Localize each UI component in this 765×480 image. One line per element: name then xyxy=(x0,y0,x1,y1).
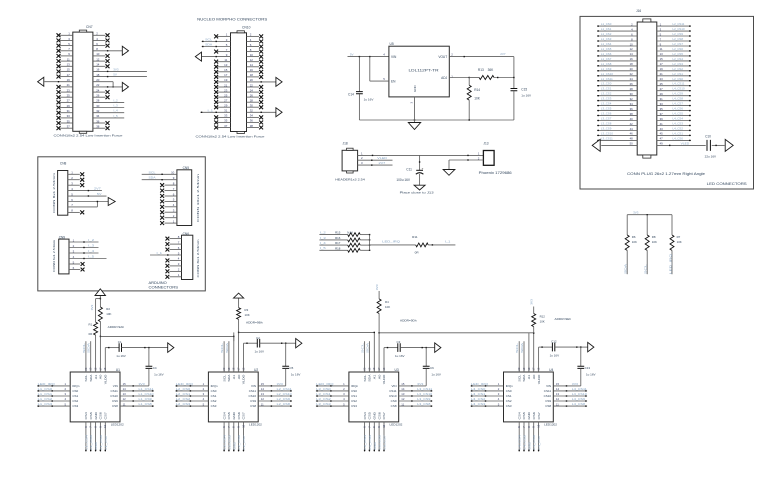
resistor R7 10K pullup to LED_IRQ xyxy=(668,215,681,275)
svg-text:SCL: SCL xyxy=(363,374,367,381)
svg-text:L1_CS3: L1_CS3 xyxy=(601,37,612,41)
regulator U5 LDL112PT-TR xyxy=(383,42,453,103)
svg-text:CONN18x2 2.54 Low Insertion Fo: CONN18x2 2.54 Low Insertion Force xyxy=(196,134,265,138)
CN10 pin 18 no-connect xyxy=(247,75,264,79)
CN6 pin 7 no-connect xyxy=(166,240,182,246)
CN10 pin 21 no-connect xyxy=(214,85,230,89)
svg-text:C10: C10 xyxy=(705,135,711,139)
svg-text:L2_CS5: L2_CS5 xyxy=(673,52,684,56)
U4 pin 4 net L4_CS2 xyxy=(471,397,504,402)
U1 pin 6 net L1_CS4 xyxy=(84,422,89,452)
svg-text:L1_CS7: L1_CS7 xyxy=(104,435,108,450)
CN7 pin 9 no-connect xyxy=(57,54,73,58)
CN8 pin 5 net 5V xyxy=(68,192,107,197)
svg-text:14: 14 xyxy=(630,52,634,56)
CN6 pin 6 no-connect xyxy=(166,246,182,252)
J16 pin 4 net L1_CS1 xyxy=(597,27,637,32)
resistor R2 10K on U1 A0 xyxy=(96,296,112,372)
svg-text:SDA: SDA xyxy=(368,375,372,382)
CN6 pin 4 no-connect xyxy=(166,257,182,263)
U4 pin 1 net LED_IRQ xyxy=(471,382,504,387)
svg-text:VOUT: VOUT xyxy=(438,55,447,59)
svg-text:SDA: SDA xyxy=(205,43,212,47)
svg-text:1u 16V: 1u 16V xyxy=(364,98,375,102)
svg-text:CS10: CS10 xyxy=(544,394,552,398)
svg-text:CS4: CS4 xyxy=(222,412,226,420)
U1 pin 14 net L1_CS11 xyxy=(120,387,154,392)
svg-text:Place close to J13: Place close to J13 xyxy=(400,191,434,195)
svg-text:C12: C12 xyxy=(551,340,557,344)
svg-text:15: 15 xyxy=(556,382,560,386)
J16 pin 37 net L4_CS5 xyxy=(657,112,691,117)
U1 A1 line with resistor R1 0R xyxy=(88,299,97,372)
svg-text:CS11: CS11 xyxy=(249,389,257,393)
CN10 pin 16 no-connect xyxy=(247,70,264,74)
svg-text:L1_CS11: L1_CS11 xyxy=(601,77,613,81)
svg-text:CS5: CS5 xyxy=(227,412,231,420)
svg-text:CS9: CS9 xyxy=(391,399,397,403)
U2 pin 1 net LED_IRQ xyxy=(175,382,208,387)
svg-text:A0: A0 xyxy=(377,374,381,379)
U3 VLDO stub xyxy=(383,348,385,372)
svg-text:L2_CS11: L2_CS11 xyxy=(673,22,685,26)
svg-text:25: 25 xyxy=(660,82,664,86)
svg-text:36: 36 xyxy=(630,107,634,111)
svg-text:CS5: CS5 xyxy=(522,412,526,420)
svg-text:L1_CS1: L1_CS1 xyxy=(601,27,612,31)
U1 SCL stub xyxy=(82,341,86,372)
svg-text:1u 16V: 1u 16V xyxy=(431,373,441,377)
svg-text:L2_CS2: L2_CS2 xyxy=(673,67,684,71)
CN7 pin 5 no-connect xyxy=(57,44,73,48)
svg-text:45: 45 xyxy=(660,132,664,136)
svg-text:CS6: CS6 xyxy=(532,412,536,420)
resistor R14 10K xyxy=(467,78,481,121)
CN5 pin 1 no-connect xyxy=(160,219,177,225)
svg-text:I_5: I_5 xyxy=(320,246,326,250)
CN10 pin 35 no-connect xyxy=(214,121,230,125)
svg-text:15: 15 xyxy=(261,382,265,386)
J16 pin 22 net L1_CS10 xyxy=(597,72,637,77)
svg-text:15: 15 xyxy=(123,382,127,386)
svg-text:L3_CS8: L3_CS8 xyxy=(417,402,431,406)
U2 pin 6 net L2_CS4 xyxy=(222,422,227,452)
svg-text:SCL: SCL xyxy=(644,264,648,274)
svg-text:L1_CS0: L1_CS0 xyxy=(38,387,53,391)
J16 pin 10 net L1_CS4 xyxy=(597,42,637,47)
J16 pin 45 net L4_CS1 xyxy=(657,131,691,136)
CN7 pin 6 no-connect xyxy=(93,44,110,48)
svg-text:CS3: CS3 xyxy=(506,404,512,408)
CN7 pin 7 no-connect xyxy=(57,49,73,53)
CN9 pin 1 net I_2 xyxy=(69,238,99,243)
U4 pin 9 net L4_CS6 xyxy=(532,422,537,452)
svg-text:3V3: 3V3 xyxy=(572,382,579,386)
capacitor C13 1u 16V xyxy=(577,347,595,386)
J16 pin 29 net L4_CS9 xyxy=(657,92,691,97)
U4 pin 10 net L4_CS7 xyxy=(537,422,542,452)
svg-text:1u 16V: 1u 16V xyxy=(154,373,164,377)
CN5 pin 6 no-connect xyxy=(160,192,177,198)
U3 pin 2 net L3_CS0 xyxy=(316,387,349,392)
CN7 pin 4 no-connect xyxy=(93,39,110,43)
U2 pin 5 net L2_CS3 xyxy=(175,402,208,407)
U1 top pin numbers xyxy=(84,367,107,370)
CN7 pin 11 no-connect xyxy=(57,59,73,63)
svg-text:I_5: I_5 xyxy=(113,114,118,118)
U4 pin 7 net L4_CS5 xyxy=(522,422,527,452)
svg-text:R2: R2 xyxy=(106,307,110,311)
wire to off-page arrow U1 xyxy=(148,343,174,352)
svg-text:U5: U5 xyxy=(390,42,394,46)
wire to off-page arrow U2 xyxy=(285,339,302,348)
U2 arrow up 3V3 xyxy=(234,293,244,298)
CN10 pin 9 off-page arrow xyxy=(195,52,230,61)
svg-text:13: 13 xyxy=(660,52,664,56)
U1 SDA stub xyxy=(87,341,91,372)
svg-text:I_2: I_2 xyxy=(88,238,94,242)
svg-text:I_1: I_1 xyxy=(156,251,162,255)
J16 pin 19 net L2_CS2 xyxy=(657,67,691,72)
svg-text:NUCLEO MORPHO CONNECTORS: NUCLEO MORPHO CONNECTORS xyxy=(197,18,268,22)
CN5 pin 7 no-connect xyxy=(160,187,177,193)
CN5 pin 9 net SDA xyxy=(142,176,177,181)
svg-text:CS7: CS7 xyxy=(537,412,541,420)
J16 pin 16 net L1_CS7 xyxy=(597,57,637,62)
svg-text:SDA: SDA xyxy=(227,375,231,382)
CN7 pin 2 no-connect xyxy=(93,33,110,37)
svg-text:L4_CS5: L4_CS5 xyxy=(673,112,684,116)
svg-text:L3_CS10: L3_CS10 xyxy=(417,392,432,396)
U3 pin 8 net GND xyxy=(372,422,377,452)
CN10 pin 10 no-connect xyxy=(247,55,264,59)
resistor R11 0R xyxy=(412,235,428,255)
U2 SDA stub xyxy=(225,341,229,372)
svg-text:SCL: SCL xyxy=(205,38,212,42)
CN10 pin 3 net SCL xyxy=(202,38,231,43)
svg-text:L2_CS8: L2_CS8 xyxy=(673,37,684,41)
U1 pin 1 net LED_IRQ xyxy=(37,382,70,387)
wire J13 pin2 to ground xyxy=(449,159,483,169)
CN5 pin 4 no-connect xyxy=(160,203,177,209)
J16 pin 9 net L2_CS7 xyxy=(657,42,691,47)
J16 pin 7 net L2_CS8 xyxy=(657,37,691,42)
svg-text:HEADER1x3 2.54: HEADER1x3 2.54 xyxy=(335,178,365,182)
CN7 pin 37 no-connect xyxy=(57,126,73,130)
J16 pin 50 off-page arrow left xyxy=(592,139,637,151)
svg-text:L3_CS9: L3_CS9 xyxy=(601,127,612,131)
U4 pin 8 net GND xyxy=(527,422,532,452)
svg-text:1u 16V: 1u 16V xyxy=(550,354,560,358)
U2 A1 stub xyxy=(233,332,235,372)
U2 pin 4 net L2_CS2 xyxy=(175,397,208,402)
svg-text:CS8: CS8 xyxy=(250,404,256,408)
wire EN loop xyxy=(370,57,389,82)
svg-text:22: 22 xyxy=(630,72,634,76)
svg-text:R18: R18 xyxy=(335,246,341,250)
J16 pin 31 net L4_CS8 xyxy=(657,97,691,102)
svg-text:SCL: SCL xyxy=(222,374,226,381)
svg-text:L3_CS8: L3_CS8 xyxy=(601,122,612,126)
svg-text:VIN: VIN xyxy=(113,384,118,388)
svg-text:VLED: VLED xyxy=(377,156,388,160)
svg-text:C3: C3 xyxy=(397,340,401,344)
svg-text:U3: U3 xyxy=(394,368,398,372)
J16 pin 35 net L4_CS6 xyxy=(657,107,691,112)
svg-text:CS2: CS2 xyxy=(351,399,357,403)
svg-text:50: 50 xyxy=(630,142,634,146)
CN10 pin 24 no-connect xyxy=(247,90,264,94)
svg-text:1u 16V: 1u 16V xyxy=(586,373,596,377)
CN10 pin 27 no-connect xyxy=(214,100,230,104)
CN10 pin 37 no-connect xyxy=(214,126,230,130)
svg-text:CS11: CS11 xyxy=(544,389,552,393)
svg-text:CONN PLUG 26x2 1.27mm Right An: CONN PLUG 26x2 1.27mm Right Angle xyxy=(627,172,705,176)
svg-text:A0: A0 xyxy=(99,374,103,379)
svg-text:CN10: CN10 xyxy=(242,26,251,30)
svg-text:38: 38 xyxy=(630,112,634,116)
svg-text:12: 12 xyxy=(630,47,634,51)
svg-text:CS0: CS0 xyxy=(211,389,217,393)
svg-text:13: 13 xyxy=(401,392,405,396)
CN8 pin 2 no-connect xyxy=(68,176,84,182)
CN10 pin 17 no-connect xyxy=(214,75,230,79)
svg-text:L3_CS7: L3_CS7 xyxy=(383,435,387,450)
J16 pin 27 net L4_CS10 xyxy=(657,87,691,92)
CN7 pin 14 no-connect xyxy=(93,64,110,68)
svg-text:L4_CS11: L4_CS11 xyxy=(673,82,685,86)
J16 pin 1 net L2_CS11 xyxy=(657,22,691,27)
svg-text:L2_CS0: L2_CS0 xyxy=(176,387,191,391)
svg-text:3V3: 3V3 xyxy=(375,284,379,290)
svg-text:L4_CS8: L4_CS8 xyxy=(673,97,684,101)
CN5 pin 5 no-connect xyxy=(160,198,177,204)
wire J18 pin2 net VLED xyxy=(358,156,393,161)
svg-text:L3_CS6: L3_CS6 xyxy=(378,435,382,450)
svg-text:SCL: SCL xyxy=(361,342,365,353)
svg-text:L3_CS11: L3_CS11 xyxy=(417,387,432,391)
U2 pin 12 net L2_CS9 xyxy=(258,397,292,402)
J16 pin 6 net L1_CS2 xyxy=(597,32,637,37)
svg-text:14: 14 xyxy=(401,387,405,391)
svg-text:14: 14 xyxy=(123,387,127,391)
resistor R6 10K pullup to SDA xyxy=(624,215,637,275)
svg-text:I_5: I_5 xyxy=(88,255,94,259)
svg-text:GND: GND xyxy=(232,411,236,419)
U3 pin 9 net L3_CS6 xyxy=(377,422,382,452)
svg-text:36K: 36K xyxy=(488,68,495,72)
svg-text:R7: R7 xyxy=(677,235,681,239)
svg-text:IRQn: IRQn xyxy=(351,384,358,388)
U3 pin 12 net L3_CS9 xyxy=(399,397,433,402)
arduino connectors outline box xyxy=(38,157,206,291)
U3 top pin numbers xyxy=(363,367,386,370)
svg-text:GND: GND xyxy=(94,442,98,450)
J16 pin 49 net VLED with C10 and arrow xyxy=(657,141,706,146)
svg-text:ADDR=9Dh: ADDR=9Dh xyxy=(400,319,417,323)
U2 pin 7 net L2_CS5 xyxy=(227,422,232,452)
arrow up to arduino box 3V3 xyxy=(95,289,106,296)
svg-text:R3: R3 xyxy=(245,308,249,312)
svg-text:L1_CS5: L1_CS5 xyxy=(601,47,612,51)
CN10 pin 38 no-connect xyxy=(247,126,264,130)
svg-text:L1_CS1: L1_CS1 xyxy=(38,392,53,396)
CN7 pin 10 no-connect xyxy=(93,54,110,58)
CN7 pin 38 no-connect xyxy=(93,126,110,130)
connector CN5 xyxy=(177,166,200,226)
CN7 pin 22 off-page arrow xyxy=(93,82,129,91)
svg-text:10: 10 xyxy=(103,424,107,427)
U4 pin 12 net L4_CS9 xyxy=(553,397,587,402)
CN7 pin 26 no-connect xyxy=(93,95,110,99)
wire junction bus xyxy=(369,235,371,251)
wire LED_IRQ xyxy=(370,240,416,245)
U3 pin 13 net L3_CS10 xyxy=(399,392,433,397)
svg-text:LED_IRQ: LED_IRQ xyxy=(668,253,672,274)
svg-text:L2_CS7: L2_CS7 xyxy=(673,42,684,46)
svg-text:L1_CS5: L1_CS5 xyxy=(89,435,93,450)
svg-text:CS0: CS0 xyxy=(72,389,78,393)
svg-text:L2_CS10: L2_CS10 xyxy=(673,27,685,31)
svg-text:L2_CS9: L2_CS9 xyxy=(277,397,291,401)
svg-text:A1: A1 xyxy=(527,374,531,379)
U2 top pin numbers xyxy=(222,367,245,370)
U1 pin 3 net L1_CS1 xyxy=(37,392,70,397)
wire to off-page arrow U4 xyxy=(580,342,594,351)
svg-text:R13: R13 xyxy=(478,68,484,72)
svg-text:I_2: I_2 xyxy=(113,98,118,102)
svg-text:L2_CS8: L2_CS8 xyxy=(277,402,291,406)
resistor R13 36K xyxy=(469,68,514,79)
svg-text:SDA: SDA xyxy=(149,176,156,180)
svg-text:5V: 5V xyxy=(350,52,354,56)
capacitor C3 1u 16V xyxy=(384,340,426,358)
resistor R16 net I_3 xyxy=(319,236,370,242)
CN7 pin 24 no-connect xyxy=(93,90,110,94)
svg-text:ADDR=9Ah: ADDR=9Ah xyxy=(108,325,125,329)
J16 pin 32 net L3_CS3 xyxy=(597,97,637,102)
svg-text:13: 13 xyxy=(556,392,560,396)
CN10 pin 20 off-page arrow xyxy=(247,77,283,86)
svg-text:3V3: 3V3 xyxy=(277,382,284,386)
svg-text:L4_CS11: L4_CS11 xyxy=(572,387,587,391)
net 5V input wire xyxy=(348,52,389,57)
U3 SDA stub xyxy=(365,341,369,372)
svg-text:L3_CS11: L3_CS11 xyxy=(601,136,613,140)
svg-text:L3_CS6: L3_CS6 xyxy=(601,112,612,116)
U1 pin 12 net L1_CS9 xyxy=(120,397,154,402)
svg-text:J18: J18 xyxy=(343,142,348,146)
svg-text:R12: R12 xyxy=(540,315,546,319)
svg-text:VLED: VLED xyxy=(681,141,690,145)
resistor R17 net I_4 xyxy=(319,241,370,247)
CN10 pin 22 no-connect xyxy=(247,85,264,89)
svg-text:10K: 10K xyxy=(677,240,682,244)
svg-text:CS4: CS4 xyxy=(517,412,521,420)
svg-text:L2_CS0: L2_CS0 xyxy=(673,77,684,81)
J16 pin 36 net L3_CS5 xyxy=(597,107,637,112)
svg-text:L4_CS8: L4_CS8 xyxy=(572,402,586,406)
svg-text:ADDR=9Bh: ADDR=9Bh xyxy=(246,321,263,325)
svg-text:C15: C15 xyxy=(521,88,527,92)
svg-text:CS9: CS9 xyxy=(250,399,256,403)
svg-text:LDL112PT-TR: LDL112PT-TR xyxy=(409,69,440,73)
svg-text:SCL: SCL xyxy=(82,342,86,353)
svg-text:CS7: CS7 xyxy=(382,412,386,420)
svg-text:17: 17 xyxy=(660,62,664,66)
CN10 pin 32 off-page arrow xyxy=(247,108,283,117)
svg-text:L1_CS0: L1_CS0 xyxy=(601,22,612,26)
svg-text:C2: C2 xyxy=(256,336,260,340)
svg-text:L2_CS5: L2_CS5 xyxy=(227,435,231,450)
J16 pin 21 net L2_CS1 xyxy=(657,72,691,77)
svg-text:VLDO: VLDO xyxy=(382,374,386,384)
svg-text:CONN 10x1 2.54mm: CONN 10x1 2.54mm xyxy=(196,173,200,222)
resistor R3 10K on U2 A0 xyxy=(237,298,250,372)
CN5 pin 2 no-connect xyxy=(160,214,177,220)
svg-text:C13: C13 xyxy=(585,366,591,370)
svg-text:5V: 5V xyxy=(97,192,102,196)
CN10 pin 15 no-connect xyxy=(214,70,230,74)
svg-text:SDA: SDA xyxy=(624,263,628,274)
CN10 pin 19 no-connect xyxy=(214,80,230,84)
svg-text:SDA: SDA xyxy=(520,343,524,353)
J16 pin 8 net L1_CS3 xyxy=(597,37,637,42)
CN6 pin 3 no-connect xyxy=(166,262,182,268)
J16 pin 47 net L4_CS0 xyxy=(657,136,691,141)
svg-text:CS1: CS1 xyxy=(211,394,217,398)
svg-text:Phoenix 1729686: Phoenix 1729686 xyxy=(479,171,512,175)
svg-text:32: 32 xyxy=(630,97,634,101)
J16 pin 40 net L3_CS7 xyxy=(597,117,637,122)
svg-text:27: 27 xyxy=(660,87,664,91)
U4 A1 stub xyxy=(528,333,530,372)
U3 pin 1 net LED_IRQ xyxy=(316,382,349,387)
capacitor C2 1u 16V xyxy=(244,336,286,354)
svg-text:10K: 10K xyxy=(652,240,657,244)
connector J16 xyxy=(636,9,657,158)
svg-text:43: 43 xyxy=(660,127,664,131)
svg-text:L4_CS0: L4_CS0 xyxy=(471,387,486,391)
svg-text:R16: R16 xyxy=(335,236,341,240)
svg-text:LED1202: LED1202 xyxy=(544,423,557,427)
U3 pin 3 net L3_CS1 xyxy=(316,392,349,397)
svg-text:IRQn: IRQn xyxy=(72,384,79,388)
J16 pin 38 net L3_CS6 xyxy=(597,112,637,117)
svg-text:CN5: CN5 xyxy=(183,166,190,170)
CN8 pin 4 net 2V7 xyxy=(68,187,102,192)
resistor R15 net I_2 xyxy=(319,231,370,237)
CN10 pin 31 net I_1 xyxy=(200,108,230,113)
CN7 pin 30 net I_3 xyxy=(93,104,124,108)
svg-text:CS5: CS5 xyxy=(368,412,372,420)
svg-text:CS8: CS8 xyxy=(391,404,397,408)
svg-text:2V7: 2V7 xyxy=(94,187,101,191)
svg-text:5V: 5V xyxy=(113,73,117,77)
svg-text:CN8: CN8 xyxy=(60,162,67,166)
J16 pin 2 net L1_CS0 xyxy=(597,22,637,27)
svg-text:CONNECTORS: CONNECTORS xyxy=(149,285,179,289)
svg-text:11: 11 xyxy=(123,402,126,406)
svg-text:1u 16V: 1u 16V xyxy=(255,350,265,354)
U4 VLDO stub xyxy=(538,347,540,372)
svg-text:CS1: CS1 xyxy=(506,394,512,398)
J16 pin 12 net L1_CS5 xyxy=(597,47,637,52)
svg-text:L3_CS4: L3_CS4 xyxy=(601,102,612,106)
svg-text:L1_CS3: L1_CS3 xyxy=(38,402,53,406)
svg-text:L1_CS2: L1_CS2 xyxy=(38,397,53,401)
svg-text:LED CONNECTORS: LED CONNECTORS xyxy=(707,182,747,186)
